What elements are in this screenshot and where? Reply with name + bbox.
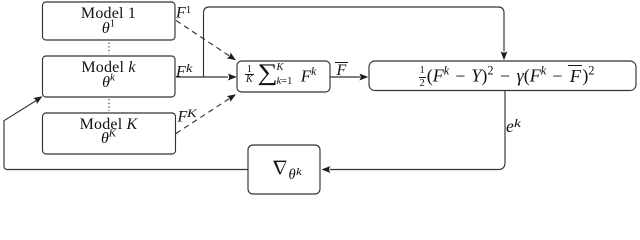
- box Model K: [43, 113, 176, 154]
- box Model 1: [43, 2, 176, 40]
- wire feedback gradient to models: [4, 100, 248, 169]
- wire Fk branch to loss (top): [204, 7, 505, 77]
- dotted link Modelk-ModelK: [108, 99, 110, 111]
- arrowhead feedback: [33, 93, 44, 104]
- box loss function: [369, 61, 636, 91]
- wire Fbar average to loss: [331, 76, 361, 78]
- arrowhead Fk: [228, 74, 237, 81]
- label theta K: [43, 131, 175, 147]
- label Model 1: [43, 6, 175, 22]
- dotted link Model1-Modelk: [108, 43, 110, 55]
- box Model k: [43, 56, 176, 97]
- arrowhead FK: [227, 91, 238, 102]
- box gradient: [248, 145, 320, 194]
- label Fk on wire: [176, 64, 191, 81]
- label Model k: [43, 60, 175, 76]
- arrowhead into gradient: [322, 166, 331, 173]
- arrowhead into loss top: [501, 51, 508, 60]
- label theta 1: [43, 21, 175, 37]
- label FK on wire: [178, 109, 195, 126]
- arrowhead F1: [227, 52, 238, 63]
- label Fbar on wire: [335, 62, 348, 80]
- dashed wire F1 to average: [176, 21, 230, 57]
- label theta k: [43, 75, 175, 91]
- nabla symbol: [273, 161, 286, 175]
- arrowhead Fbar: [359, 74, 368, 81]
- wire Fk to average: [176, 76, 228, 78]
- wire ek loss to gradient: [330, 91, 505, 170]
- dashed wire FK to average: [176, 99, 230, 134]
- label F1 on wire: [176, 5, 191, 22]
- label gradient subscript theta k: [289, 168, 301, 183]
- formula loss: [373, 65, 640, 89]
- label ek on wire: [506, 117, 519, 136]
- label Model K: [43, 117, 175, 133]
- formula ensemble average: [237, 65, 330, 85]
- box ensemble average: [237, 61, 330, 92]
